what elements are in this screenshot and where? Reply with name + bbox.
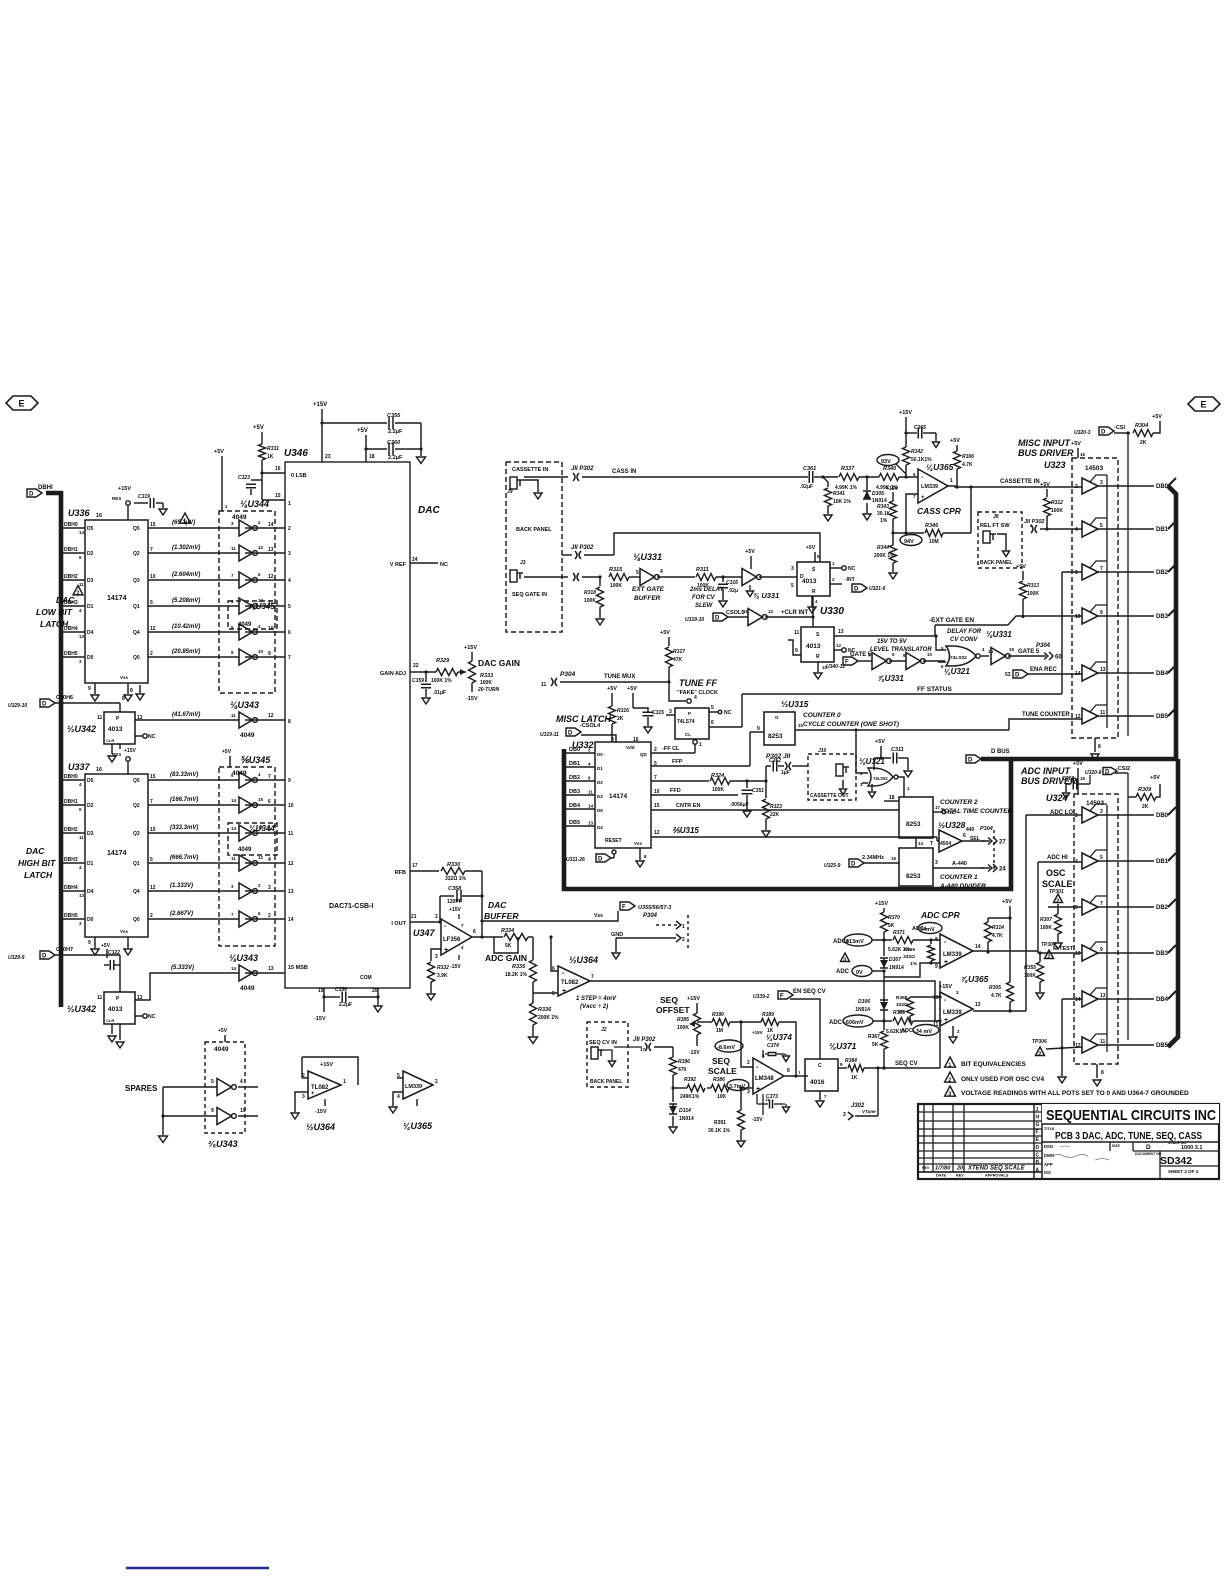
svg-text:C319: C319 [138, 494, 150, 500]
svg-text:3: 3 [747, 1089, 750, 1095]
svg-text:C316: C316 [726, 580, 738, 586]
svg-text:-15V: -15V [314, 1016, 326, 1022]
svg-text:4016: 4016 [810, 1079, 825, 1086]
svg-text:¼U321: ¼U321 [944, 667, 970, 676]
svg-text:24: 24 [999, 867, 1006, 873]
svg-text:-15V: -15V [689, 1050, 700, 1056]
svg-text:BACK PANEL: BACK PANEL [590, 1079, 622, 1085]
svg-text:+5V: +5V [1073, 761, 1083, 767]
svg-text:R365: R365 [893, 1010, 905, 1016]
svg-text:6: 6 [268, 799, 271, 805]
svg-text:DBH0: DBH0 [64, 522, 78, 528]
svg-text:D0: D0 [87, 917, 94, 923]
svg-text:E: E [1201, 400, 1207, 410]
svg-text:+5V: +5V [253, 425, 264, 431]
svg-text:2: 2 [1075, 484, 1078, 490]
svg-text:U339-2: U339-2 [753, 994, 770, 1000]
svg-text:23: 23 [325, 454, 331, 460]
svg-text:DB0: DB0 [1156, 484, 1169, 490]
svg-text:R306: R306 [962, 454, 974, 460]
svg-text:½U328: ½U328 [938, 820, 966, 830]
svg-text:ONLY USED FOR OSC CV4: ONLY USED FOR OSC CV4 [961, 1076, 1044, 1083]
svg-text:F: F [780, 994, 784, 1000]
svg-text:+CLR INT: +CLR INT [781, 610, 809, 616]
svg-text:⅛U343: ⅛U343 [229, 953, 258, 963]
svg-text:R: R [812, 589, 816, 595]
svg-text:LM339: LM339 [405, 1084, 422, 1090]
svg-text:6: 6 [963, 833, 966, 839]
svg-text:LATCH: LATCH [24, 870, 53, 880]
svg-text:9: 9 [935, 964, 938, 970]
svg-text:Q3: Q3 [133, 578, 140, 584]
svg-text:3: 3 [935, 860, 938, 866]
svg-text:12: 12 [288, 861, 294, 867]
svg-text:P304: P304 [1036, 643, 1051, 649]
svg-text:J10: J10 [818, 748, 827, 754]
svg-text:EXT GATE: EXT GATE [632, 586, 665, 593]
svg-text:D314: D314 [679, 1108, 691, 1114]
svg-text:8: 8 [1101, 1070, 1104, 1076]
svg-text:9: 9 [1100, 610, 1103, 616]
svg-text:1: 1 [183, 519, 186, 525]
svg-text:-15V: -15V [466, 696, 478, 702]
svg-text:U319-11: U319-11 [540, 732, 559, 738]
svg-text:7: 7 [591, 974, 594, 980]
svg-text:+: + [944, 959, 948, 966]
svg-text:332Ω: 332Ω [903, 954, 915, 960]
svg-text:5: 5 [1100, 855, 1103, 861]
svg-text:R307: R307 [1040, 917, 1052, 923]
svg-text:13: 13 [288, 889, 294, 895]
svg-text:DB1: DB1 [1156, 527, 1169, 533]
svg-text:C315: C315 [652, 710, 664, 716]
svg-text:DBH4: DBH4 [64, 885, 78, 891]
svg-text:R343: R343 [877, 504, 889, 510]
svg-text:COUNTER 0: COUNTER 0 [803, 712, 841, 719]
svg-text:5K: 5K [888, 923, 895, 929]
svg-text:4504: 4504 [940, 841, 951, 847]
svg-text:U329-9: U329-9 [8, 955, 25, 961]
svg-text:10: 10 [1075, 614, 1081, 620]
svg-text:11: 11 [231, 856, 236, 861]
svg-text:332Ω 1%: 332Ω 1% [445, 876, 467, 882]
svg-text:DB0: DB0 [569, 747, 580, 753]
svg-text:14174: 14174 [107, 595, 127, 602]
svg-text:TL082: TL082 [561, 980, 579, 986]
svg-text:P304: P304 [560, 671, 576, 678]
svg-text:D305: D305 [872, 491, 884, 497]
svg-text:G: G [1036, 1122, 1040, 1128]
svg-text:D306: D306 [858, 999, 870, 1005]
svg-text:Q4: Q4 [133, 889, 140, 895]
svg-text:R312: R312 [1051, 500, 1063, 506]
svg-text:12: 12 [258, 855, 264, 860]
svg-text:ADC: ADC [836, 969, 850, 975]
svg-text:8: 8 [787, 1068, 790, 1074]
svg-text:D307: D307 [889, 957, 901, 963]
svg-text:D2: D2 [597, 780, 603, 785]
svg-text:I: I [799, 1070, 800, 1075]
svg-text:7: 7 [288, 655, 291, 661]
svg-text:U325-9: U325-9 [824, 863, 841, 869]
svg-text:15: 15 [150, 774, 156, 780]
svg-text:LM339: LM339 [921, 484, 938, 490]
svg-text:D2: D2 [87, 551, 94, 557]
svg-text:12: 12 [654, 830, 660, 836]
svg-text:SCALE: SCALE [1042, 879, 1073, 889]
svg-text:⅛U331: ⅛U331 [986, 630, 1012, 639]
svg-text:R329: R329 [436, 658, 450, 664]
svg-text:13: 13 [79, 893, 85, 898]
svg-text:+15V: +15V [875, 901, 888, 907]
svg-text:22: 22 [413, 663, 419, 669]
svg-text:MISC INPUT: MISC INPUT [1018, 438, 1072, 448]
svg-text:14: 14 [588, 804, 594, 809]
svg-text:OSC: OSC [1046, 868, 1066, 878]
svg-text:J9: J9 [507, 489, 513, 495]
svg-text:2.2μF: 2.2μF [388, 455, 403, 461]
svg-text:4013: 4013 [108, 1006, 123, 1013]
svg-text:(Vᴀᴄc ÷ 2): (Vᴀᴄc ÷ 2) [580, 1004, 608, 1010]
svg-text:D: D [1015, 673, 1020, 679]
svg-text:11: 11 [588, 790, 593, 795]
svg-text:-CSOL4: -CSOL4 [580, 723, 601, 729]
svg-text:+5V: +5V [607, 686, 617, 692]
svg-text:SEQ CV: SEQ CV [895, 1061, 918, 1067]
svg-text:DBH1: DBH1 [64, 547, 78, 553]
svg-text:14: 14 [288, 917, 294, 923]
svg-text:93V: 93V [881, 459, 891, 465]
svg-text:4049: 4049 [240, 985, 255, 992]
svg-text:D2: D2 [87, 803, 94, 809]
svg-text:613mV: 613mV [846, 939, 864, 945]
svg-text:DB5: DB5 [1156, 1043, 1169, 1049]
svg-text:Vss: Vss [594, 913, 603, 919]
svg-text:2ms DELAY: 2ms DELAY [689, 587, 725, 593]
svg-text:CLR: CLR [106, 738, 114, 743]
svg-text:17: 17 [412, 863, 418, 869]
svg-text:100K: 100K [1051, 508, 1063, 514]
svg-text:JII P302: JII P302 [633, 1037, 656, 1043]
svg-text:CYCLE COUNTER (ONE SHOT): CYCLE COUNTER (ONE SHOT) [803, 721, 899, 728]
svg-text:CLR: CLR [106, 1018, 114, 1023]
svg-text:COM: COM [360, 975, 372, 981]
svg-text:R368: R368 [896, 995, 908, 1001]
svg-text:GATE 5: GATE 5 [1018, 649, 1040, 655]
svg-text:+: + [921, 495, 925, 501]
svg-text:C311: C311 [891, 747, 904, 753]
svg-text:22K: 22K [770, 812, 780, 818]
svg-text:Q5: Q5 [133, 526, 140, 532]
svg-text:+5V: +5V [222, 749, 232, 755]
svg-text:+: + [944, 1017, 948, 1024]
svg-text:ADC INPUT: ADC INPUT [1020, 766, 1072, 776]
svg-text:SLEW: SLEW [695, 603, 714, 609]
svg-text:U319-10: U319-10 [685, 617, 704, 623]
svg-text:-: - [921, 475, 923, 481]
svg-text:⅚U345: ⅚U345 [240, 755, 271, 765]
svg-text:C355: C355 [387, 413, 401, 419]
svg-text:2.2μF: 2.2μF [339, 1002, 352, 1008]
svg-text:D: D [968, 758, 973, 764]
svg-text:Q0: Q0 [133, 655, 140, 661]
svg-text:7: 7 [654, 775, 657, 781]
svg-text:U329-10: U329-10 [8, 703, 27, 709]
svg-text:9: 9 [268, 651, 271, 657]
svg-text:DB3: DB3 [569, 789, 580, 795]
svg-text:1K: 1K [851, 1075, 858, 1081]
svg-text:3: 3 [948, 1092, 951, 1098]
svg-text:6: 6 [1075, 570, 1078, 576]
svg-text:P: P [688, 711, 691, 716]
svg-text:DBH5: DBH5 [64, 913, 78, 919]
svg-text:R315: R315 [609, 567, 623, 573]
svg-text:TUNE MUX: TUNE MUX [604, 674, 635, 680]
svg-text:ADC CPR: ADC CPR [920, 910, 961, 920]
svg-text:CNTR EN: CNTR EN [676, 803, 700, 809]
svg-text:1N914: 1N914 [679, 1116, 694, 1122]
svg-text:DAC: DAC [488, 900, 507, 910]
svg-text:CASSETTE OUT: CASSETTE OUT [810, 793, 849, 799]
svg-text:GAIN ADJ: GAIN ADJ [380, 671, 406, 677]
svg-text:4: 4 [397, 1094, 400, 1100]
svg-text:16: 16 [1080, 452, 1086, 457]
svg-text:2: 2 [435, 914, 438, 920]
svg-text:QD: QD [640, 752, 648, 757]
svg-text:1: 1 [682, 924, 685, 930]
svg-text:10: 10 [150, 827, 156, 833]
svg-text:15: 15 [891, 856, 897, 861]
svg-text:11: 11 [794, 630, 800, 636]
svg-text:4: 4 [240, 1079, 243, 1085]
svg-text:LM348: LM348 [755, 1076, 774, 1082]
svg-text:JII P302: JII P302 [571, 466, 594, 472]
svg-text:FF STATUS: FF STATUS [917, 686, 952, 693]
svg-text:D: D [568, 731, 573, 737]
svg-text:D5: D5 [87, 778, 94, 784]
svg-text:D1: D1 [597, 766, 603, 771]
svg-text:D0: D0 [87, 655, 94, 661]
svg-text:BUFFER: BUFFER [484, 911, 519, 921]
svg-text:+15V: +15V [124, 748, 136, 754]
svg-text:R396: R396 [678, 1059, 690, 1065]
svg-text:DBHI: DBHI [38, 485, 53, 491]
svg-text:DB2: DB2 [569, 775, 580, 781]
svg-text:4: 4 [268, 857, 271, 863]
svg-text:+5V: +5V [101, 943, 111, 949]
svg-text:.01μF: .01μF [433, 690, 446, 696]
svg-text:Q2: Q2 [133, 803, 140, 809]
svg-text:19: 19 [318, 988, 324, 994]
svg-text:10: 10 [288, 803, 294, 809]
svg-text:SEQ: SEQ [660, 995, 678, 1005]
svg-text:4049: 4049 [214, 1046, 229, 1053]
svg-text:ADC HI: ADC HI [1047, 855, 1068, 861]
svg-text:100K: 100K [584, 598, 596, 604]
svg-text:20-TURN: 20-TURN [477, 687, 500, 693]
svg-text:12: 12 [836, 643, 842, 648]
svg-text:C360: C360 [387, 440, 400, 446]
svg-text:½U342: ½U342 [67, 1004, 96, 1014]
svg-text:+5V: +5V [875, 739, 885, 745]
svg-text:17: 17 [640, 1047, 646, 1052]
svg-text:11: 11 [79, 835, 84, 840]
svg-text:-: - [311, 1071, 313, 1077]
svg-text:SPARES: SPARES [125, 1084, 158, 1093]
svg-text:D3: D3 [87, 578, 94, 584]
svg-text:+: + [756, 1086, 760, 1093]
svg-text:9: 9 [757, 726, 760, 732]
svg-text:2K: 2K [617, 716, 624, 722]
svg-text:D3: D3 [87, 831, 94, 837]
svg-text:(1.333V): (1.333V) [170, 883, 193, 889]
svg-text:FFD: FFD [670, 788, 681, 794]
svg-text:2.2μF: 2.2μF [388, 429, 403, 435]
svg-text:¼U374: ¼U374 [766, 1033, 792, 1042]
svg-text:⅞U331: ⅞U331 [878, 674, 904, 683]
svg-text:Q1: Q1 [133, 604, 140, 610]
svg-text:.02μ: .02μ [728, 588, 738, 594]
svg-text:LM339: LM339 [943, 1010, 962, 1016]
svg-text:27: 27 [999, 840, 1006, 846]
svg-text:15V TO 5V: 15V TO 5V [877, 639, 908, 645]
svg-text:-15V: -15V [315, 1109, 327, 1115]
svg-text:4.7K: 4.7K [992, 933, 1003, 939]
svg-text:+15V: +15V [313, 402, 327, 408]
svg-text:LEVEL TRANSLATOR: LEVEL TRANSLATOR [870, 647, 932, 653]
svg-text:1: 1 [288, 501, 291, 507]
svg-text:11: 11 [1100, 710, 1106, 716]
svg-text:LOW BIT: LOW BIT [36, 607, 73, 617]
svg-text:+5V: +5V [218, 1028, 228, 1034]
svg-text:R331: R331 [267, 446, 279, 452]
svg-text:2: 2 [435, 1079, 438, 1085]
svg-text:+5V: +5V [1040, 482, 1050, 488]
svg-text:10: 10 [933, 995, 939, 1001]
svg-text:Q1: Q1 [133, 861, 140, 867]
svg-text:+: + [444, 947, 448, 954]
svg-text:D4: D4 [87, 889, 94, 895]
svg-text:11: 11 [541, 682, 547, 688]
svg-text:D4: D4 [597, 825, 603, 830]
svg-text:R367: R367 [868, 1034, 880, 1040]
svg-text:14174: 14174 [609, 793, 627, 800]
svg-text:(1.302mV): (1.302mV) [172, 545, 200, 551]
svg-text:200K 1%: 200K 1% [538, 1015, 559, 1021]
svg-text:D: D [1101, 430, 1106, 436]
svg-text:3.7mV: 3.7mV [729, 1084, 746, 1090]
svg-text:ADC-: ADC- [829, 1020, 844, 1026]
svg-text:U336: U336 [68, 508, 91, 518]
svg-text:15: 15 [275, 493, 281, 499]
svg-text:18: 18 [369, 454, 375, 460]
svg-text:DBH2: DBH2 [64, 827, 78, 833]
svg-text:100K: 100K [677, 1025, 689, 1031]
svg-text:R305: R305 [989, 985, 1001, 991]
svg-text:U324: U324 [1046, 793, 1068, 803]
svg-text:24: 24 [412, 557, 418, 563]
svg-text:R309: R309 [1138, 787, 1152, 793]
svg-text:6: 6 [288, 630, 291, 636]
svg-text:-606mV: -606mV [844, 1020, 864, 1026]
svg-text:DOCUMENT NO: DOCUMENT NO [1135, 1152, 1162, 1156]
svg-text:⅛U344: ⅛U344 [249, 824, 275, 833]
svg-text:U347: U347 [413, 928, 436, 938]
svg-text:APP: APP [1044, 1162, 1053, 1167]
svg-text:DB5: DB5 [1156, 714, 1169, 720]
svg-text:D: D [854, 587, 859, 593]
svg-text:ADC GAIN: ADC GAIN [485, 953, 527, 963]
svg-text:5: 5 [288, 604, 291, 610]
svg-text:R386: R386 [713, 1077, 725, 1083]
svg-text:R317: R317 [673, 649, 685, 655]
svg-text:¼U365: ¼U365 [926, 462, 954, 472]
svg-text:12: 12 [268, 713, 274, 719]
svg-text:R389: R389 [762, 1012, 774, 1018]
svg-text:74LS74: 74LS74 [677, 719, 695, 725]
svg-text:U337: U337 [68, 762, 91, 772]
svg-text:4049: 4049 [232, 770, 247, 777]
svg-text:2: 2 [150, 651, 153, 657]
svg-text:200K 1%: 200K 1% [874, 553, 895, 559]
svg-text:3.9K: 3.9K [437, 973, 448, 979]
svg-text:DAC: DAC [56, 595, 75, 605]
svg-text:12: 12 [258, 545, 264, 550]
svg-text:6: 6 [711, 720, 714, 726]
svg-text:FFP: FFP [672, 759, 683, 765]
svg-text:+15V: +15V [899, 410, 912, 416]
svg-text:RES: RES [112, 496, 121, 501]
svg-text:DAC GAIN: DAC GAIN [478, 658, 520, 668]
svg-text:15: 15 [150, 522, 156, 528]
svg-text:M TEST: M TEST [1053, 946, 1074, 952]
svg-text:11: 11 [231, 713, 236, 718]
svg-text:CL: CL [685, 732, 691, 737]
svg-text:15: 15 [654, 803, 660, 809]
svg-text:D BUS: D BUS [991, 749, 1010, 755]
svg-text:+5V: +5V [1071, 441, 1081, 447]
svg-text:R333: R333 [480, 673, 493, 679]
svg-text:LATCH: LATCH [40, 619, 69, 629]
svg-text:R371: R371 [893, 930, 905, 936]
svg-text:DB4: DB4 [1156, 671, 1169, 677]
svg-text:(166.7mV): (166.7mV) [170, 797, 198, 803]
svg-text:8: 8 [288, 719, 291, 725]
svg-text:BIT EQUIVALENCIES: BIT EQUIVALENCIES [961, 1061, 1027, 1068]
svg-text:13: 13 [975, 1002, 981, 1008]
svg-text:1: 1 [948, 1063, 951, 1069]
svg-text:TOTAL TIME COUNTER: TOTAL TIME COUNTER [940, 808, 1013, 815]
svg-text:-8.6mV: -8.6mV [717, 1045, 735, 1051]
svg-text:15 MSB: 15 MSB [288, 965, 308, 971]
svg-text:8253: 8253 [906, 821, 921, 828]
svg-text:R369: R369 [904, 947, 916, 953]
svg-text:2: 2 [1056, 899, 1059, 905]
svg-text:3: 3 [843, 958, 846, 964]
svg-text:D: D [1146, 1144, 1151, 1151]
svg-text:U311-26: U311-26 [566, 857, 585, 863]
svg-text:²⁄₆U343: ²⁄₆U343 [208, 1139, 238, 1149]
svg-text:Q0: Q0 [133, 917, 140, 923]
svg-text:EN SEQ CV: EN SEQ CV [793, 989, 826, 995]
svg-text:D: D [715, 616, 720, 622]
svg-text:R340: R340 [883, 466, 896, 472]
svg-text:C352: C352 [769, 758, 781, 764]
svg-text:3: 3 [1100, 480, 1103, 486]
svg-text:SEQ: SEQ [712, 1056, 730, 1066]
svg-text:8: 8 [122, 696, 125, 702]
svg-text:3: 3 [288, 551, 291, 557]
